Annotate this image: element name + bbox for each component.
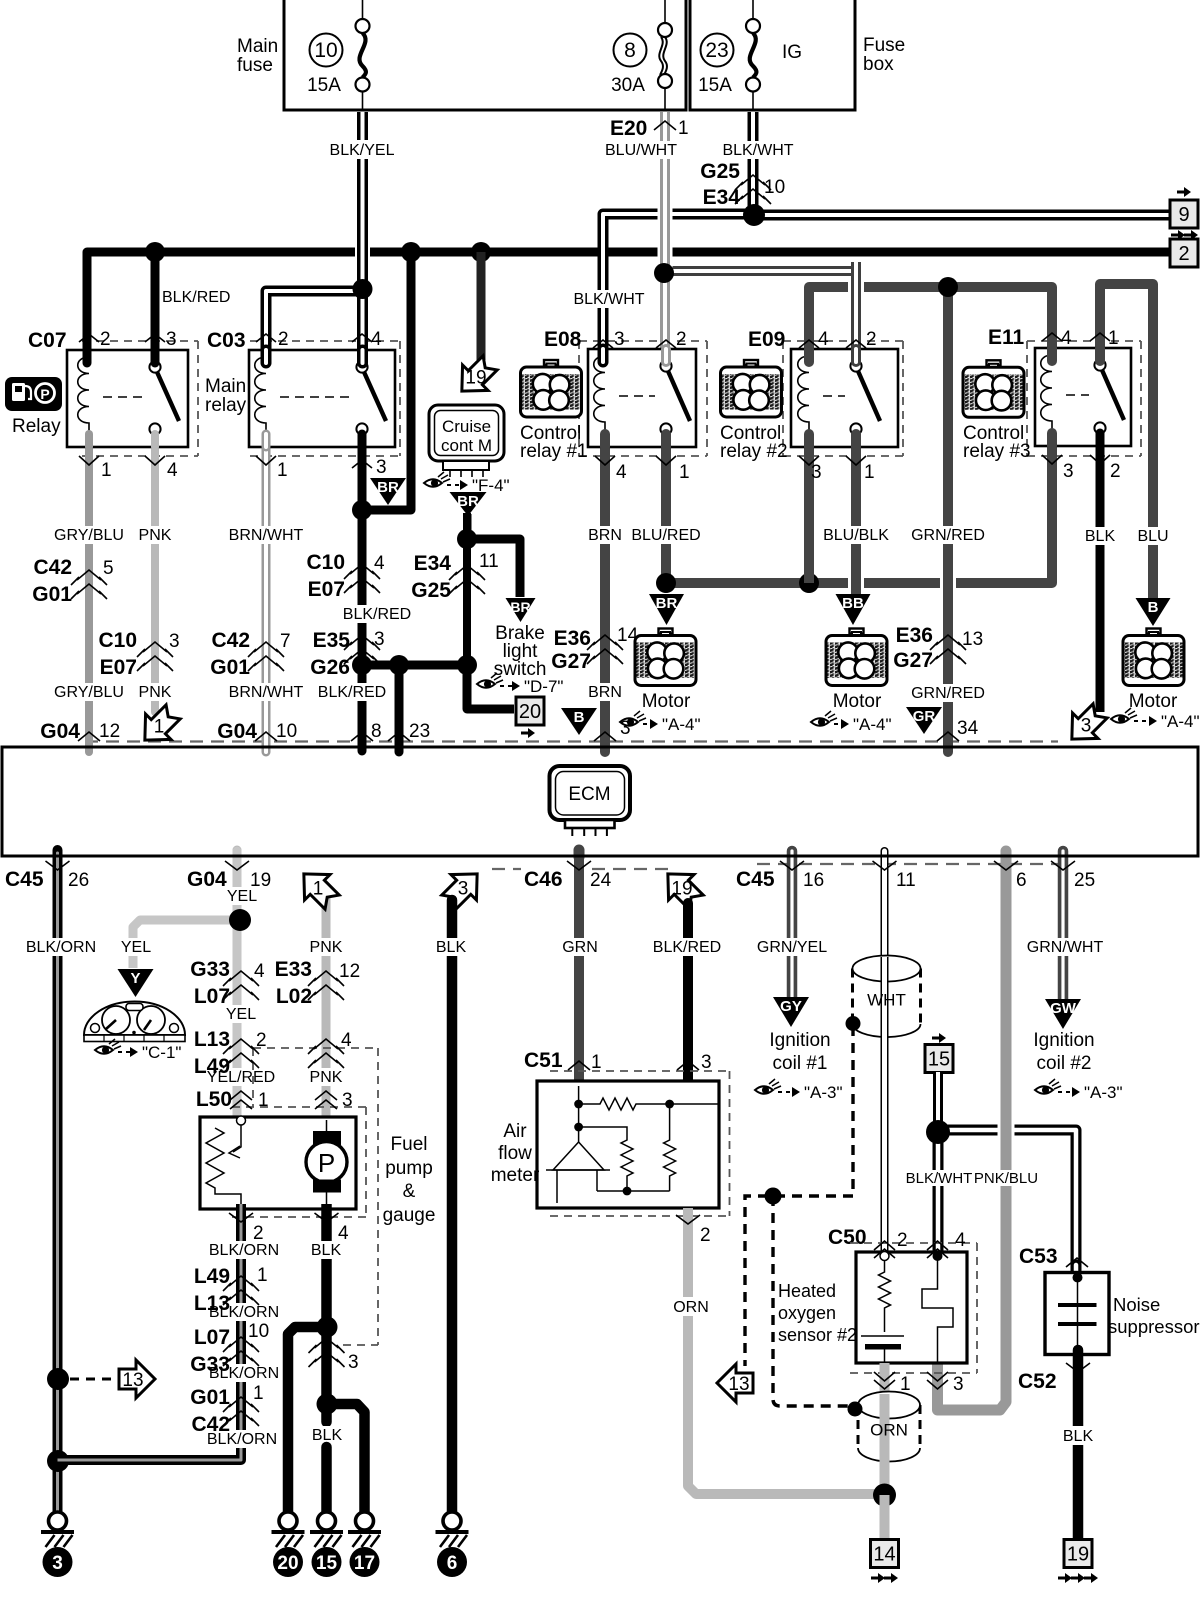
svg-text:G01: G01 — [210, 656, 250, 679]
wire BLK/RED page arrow19 to C51 pin 3 — [683, 903, 693, 1086]
inline connector mark L07/G33 pin 10 — [223, 1337, 259, 1366]
ground point 20 — [272, 1512, 305, 1577]
shield tap dot WHT cylinder — [846, 1016, 861, 1031]
ground point 15 — [310, 1512, 343, 1577]
terminal box 15 — [925, 1045, 953, 1073]
dashed link to page arrow 13 — [70, 1378, 114, 1381]
wire cruise BR arrow to junction — [463, 513, 471, 665]
ground point 17 — [348, 1512, 381, 1577]
connector dashed box C03 — [250, 341, 400, 456]
wire BLU/WHT fuse F8 down to E08 pin 2 — [660, 112, 670, 362]
pin mark E08-3 — [593, 340, 613, 348]
shield dashed WHT cylinder to junction — [851, 1026, 854, 1196]
svg-text:1: 1 — [277, 460, 288, 481]
svg-text:3: 3 — [701, 1052, 712, 1073]
page arrow 13 left — [717, 1364, 753, 1402]
pin mark C45-6 — [994, 861, 1018, 870]
inline connector mark G33/L07 pin 4 — [223, 971, 259, 1000]
wire BLK/RED down to ECM pin 23 — [395, 665, 404, 752]
arrow BR near C03 junction — [370, 478, 406, 505]
svg-text:10: 10 — [314, 39, 337, 62]
svg-text:Ignition: Ignition — [1033, 1030, 1094, 1051]
label BLK/ORN pump — [208, 1241, 280, 1259]
fuel pump relay icon — [5, 377, 62, 411]
svg-text:suppressor: suppressor — [1108, 1316, 1200, 1337]
svg-text:BLU/WHT: BLU/WHT — [605, 142, 677, 159]
svg-text:BLK/ORN: BLK/ORN — [209, 1365, 279, 1382]
svg-text:3: 3 — [169, 631, 180, 652]
junction BLK to ground 17 — [317, 1394, 338, 1415]
pin mark C53 — [1066, 1258, 1088, 1267]
wire branch junction to brake light switch arrow — [467, 539, 520, 597]
arrow BR to motor 1 — [649, 594, 684, 625]
svg-text:Y: Y — [130, 970, 140, 987]
eye reference A-3 coil 2 — [1035, 1079, 1123, 1102]
svg-text:relay #2: relay #2 — [720, 441, 788, 462]
pin mark ECM pin 23 — [388, 732, 410, 741]
svg-text:Air: Air — [503, 1121, 527, 1142]
stub C03 pin4 — [357, 350, 368, 363]
air flow meter internals — [546, 1086, 719, 1203]
stub E08 pin3 — [598, 349, 609, 362]
eye reference A-4 motor 2 — [811, 711, 892, 734]
pin mark E08-4 — [595, 456, 615, 465]
label BRN/WHT lower — [229, 683, 304, 701]
svg-text:gauge: gauge — [383, 1205, 436, 1226]
terminal box 19 — [1064, 1540, 1092, 1568]
svg-text:ECM: ECM — [568, 784, 610, 805]
inline connector mark E36/G27 pin 14 — [587, 635, 623, 664]
svg-text:E07: E07 — [100, 656, 137, 679]
svg-text:3: 3 — [458, 879, 469, 900]
radiator fan icon control relay #2 — [721, 360, 782, 417]
svg-text:relay #1: relay #1 — [520, 441, 588, 462]
stub below cruise BR arrow — [465, 514, 472, 540]
svg-text:L02: L02 — [276, 985, 312, 1008]
svg-text:23: 23 — [705, 39, 728, 62]
label GRN/WHT — [1025, 938, 1105, 956]
ECM connector dashed boundary bottom middle — [492, 868, 676, 870]
svg-text:PNK: PNK — [310, 1069, 343, 1086]
stub E09 pin3 — [804, 434, 814, 447]
arrow BR from cruise module — [450, 492, 487, 516]
ECM connector dashed boundary top — [85, 740, 1058, 742]
svg-text:C42: C42 — [33, 556, 72, 579]
svg-text:17: 17 — [354, 1553, 375, 1574]
terminal box 14 — [871, 1540, 899, 1568]
label GRN — [560, 938, 600, 956]
svg-text:Motor: Motor — [1129, 691, 1178, 712]
wire BLK/RED bus to C07 pin 3 — [151, 252, 160, 362]
svg-text:4: 4 — [371, 329, 382, 350]
wire BLK/WHT junction down to C50 pin 4 — [933, 1130, 944, 1256]
svg-text:BLK: BLK — [1063, 1428, 1094, 1445]
svg-text:3: 3 — [52, 1553, 63, 1574]
shield cylinder WHT — [853, 956, 921, 1038]
svg-text:4: 4 — [955, 1230, 966, 1251]
inline connector mark L13/L49 pin 2 — [223, 1039, 259, 1068]
label BLK/ORN c45 — [25, 938, 97, 956]
svg-text:26: 26 — [68, 870, 89, 891]
label GRY/BLU upper — [54, 526, 124, 544]
dashed boundary fuel pump outer left — [252, 1048, 254, 1107]
svg-text:C51: C51 — [524, 1049, 563, 1072]
svg-text:15: 15 — [928, 1049, 950, 1071]
svg-text:3: 3 — [811, 462, 822, 483]
svg-text:3: 3 — [953, 1374, 964, 1395]
pin mark E09-2 — [846, 340, 866, 348]
svg-text:L07: L07 — [194, 985, 230, 1008]
wire bus branch to page arrow 19 — [477, 252, 486, 360]
svg-text:E08: E08 — [544, 328, 582, 351]
pin mark C03-1 — [256, 456, 276, 465]
wire BLK branch to ground 17 — [327, 1404, 365, 1512]
pin mark C50-2 — [874, 1241, 895, 1258]
svg-text:1: 1 — [101, 460, 112, 481]
svg-text:3: 3 — [342, 1090, 353, 1111]
connector dashed box C51 — [550, 1071, 730, 1216]
label YEL/RED — [207, 1068, 275, 1086]
svg-text:2: 2 — [897, 1230, 908, 1251]
svg-text:GRN/RED: GRN/RED — [911, 685, 985, 702]
label PNK upper — [136, 526, 174, 544]
terminal box 20 — [516, 697, 544, 725]
wire ORN C50 pin 1 down through shield to junction — [880, 1363, 890, 1495]
svg-text:13: 13 — [122, 1370, 143, 1391]
svg-text:BLK/RED: BLK/RED — [653, 939, 721, 956]
svg-text:GY: GY — [780, 998, 802, 1015]
svg-text:P: P — [318, 1148, 335, 1178]
svg-text:L07: L07 — [194, 1326, 230, 1349]
wire BLK E11 pin 2 down to page arrow 3 — [1096, 435, 1105, 712]
wire PNK/BLU ECM pin 6 to C50 pin 3 — [938, 851, 1007, 1410]
fuse F10 symbol — [356, 0, 370, 110]
pin mark G04-10 — [255, 732, 277, 741]
svg-text:2: 2 — [256, 1030, 267, 1051]
stub C07 pin2 — [83, 350, 92, 363]
svg-text:BLK/WHT: BLK/WHT — [573, 291, 644, 308]
inline connector mark E33/L02 pin 12 — [308, 971, 344, 1000]
svg-text:BR: BR — [656, 595, 678, 612]
arrow Y to combination meter — [118, 969, 154, 997]
svg-text:E36: E36 — [554, 627, 591, 650]
shield dashed junction down to ORN cylinder — [773, 1196, 848, 1406]
module cruise cont M — [429, 405, 504, 477]
radiator fan icon control relay #3 — [963, 360, 1024, 417]
svg-text:10: 10 — [276, 721, 297, 742]
svg-text:3: 3 — [1081, 716, 1092, 737]
svg-text:25: 25 — [1074, 870, 1095, 891]
svg-text:15A: 15A — [698, 75, 732, 96]
connector dashed box E09 — [783, 341, 903, 456]
svg-text:Fuel: Fuel — [391, 1134, 428, 1155]
radiator fan motor 1 — [635, 629, 696, 686]
pin mark E09-1 — [846, 456, 866, 465]
svg-text:2: 2 — [1110, 461, 1121, 482]
svg-text:BB: BB — [842, 595, 864, 612]
svg-text:Noise: Noise — [1113, 1294, 1160, 1315]
svg-text:PNK/BLU: PNK/BLU — [974, 1170, 1038, 1187]
label BRN/WHT upper — [229, 526, 304, 544]
svg-text:Main: Main — [205, 376, 246, 397]
label BLK/RED c51 — [651, 938, 723, 956]
wire GRN/RED crossing segment — [943, 555, 953, 610]
ground point 3 — [41, 1512, 74, 1577]
fuse F10 number circle — [310, 34, 343, 67]
svg-text:B: B — [574, 709, 585, 726]
pin mark C51-3 — [677, 1061, 699, 1070]
svg-text:BLK/ORN: BLK/ORN — [209, 1242, 279, 1259]
inline connector mark E36/G27 pin 13 — [930, 635, 966, 664]
connector dashed box fuel pump inner — [232, 1107, 366, 1217]
stub E11 pin1 — [1095, 348, 1105, 361]
wire BLK/WHT terminal 15 to junction — [933, 1072, 943, 1135]
label BLK/YEL — [325, 140, 400, 159]
svg-text:GR: GR — [913, 708, 936, 725]
fuse box right section — [690, 0, 855, 110]
stub C07 pin4 — [151, 434, 159, 447]
dashed jog fuel pump bottom — [343, 1344, 378, 1346]
svg-text:9: 9 — [1178, 204, 1189, 226]
wire PNK C07 pin 4 down to page arrow 1 — [151, 435, 159, 712]
label GRN/RED lower — [910, 684, 986, 702]
pin mark C03-3 lower — [352, 460, 372, 468]
svg-text:1: 1 — [258, 1090, 269, 1111]
ECM connector dashed boundary bottom right — [757, 863, 1058, 865]
svg-text:flow: flow — [498, 1143, 532, 1164]
stub C03 pin1 — [262, 434, 271, 447]
pin mark ECM pin 34 — [937, 732, 959, 741]
page arrow 13 right — [119, 1360, 155, 1398]
inline connector mark E35/G26 pin 3 — [344, 635, 380, 664]
svg-text:"A-4": "A-4" — [662, 715, 701, 734]
label PNK/BLU — [974, 1170, 1038, 1187]
arrow GY to ignition coil 1 — [773, 997, 809, 1027]
fuel gauge rheostat internals — [206, 1116, 246, 1209]
svg-text:BRN/WHT: BRN/WHT — [229, 684, 304, 701]
wire ORN C51 pin 2 down to junction — [688, 1208, 885, 1494]
svg-text:BLU/BLK: BLU/BLK — [823, 527, 889, 544]
pin mark E08-2 — [656, 340, 676, 348]
svg-text:G01: G01 — [32, 583, 72, 606]
svg-text:1: 1 — [313, 879, 324, 900]
svg-text:YEL: YEL — [121, 939, 151, 956]
svg-text:coil #1: coil #1 — [773, 1053, 828, 1074]
pin mark C07-3 — [145, 334, 165, 342]
svg-text:C52: C52 — [1018, 1370, 1057, 1393]
stub C07 pin3 — [151, 350, 160, 363]
wire main supply bus BLK from C07 to terminal 2 — [87, 252, 1171, 350]
wire BLK/WHT junction to terminal 9 — [753, 210, 1171, 221]
arrow B to motor 3 — [1136, 598, 1171, 626]
pin mark E11-4 — [1042, 333, 1062, 341]
junction BLK/RED to brake light node — [457, 655, 477, 675]
wire BLK page arrow3 to ground 6 — [447, 900, 458, 1512]
svg-text:GRY/BLU: GRY/BLU — [54, 527, 124, 544]
svg-text:relay: relay — [205, 395, 247, 416]
svg-text:BR: BR — [377, 479, 399, 496]
stub E08 pin4 — [600, 434, 610, 447]
junction BLK/ORN to page 13 — [47, 1368, 69, 1390]
label GRY/BLU lower — [54, 683, 124, 701]
svg-text:WHT: WHT — [867, 990, 906, 1009]
svg-text:1: 1 — [679, 462, 690, 483]
wire BLK/ORN pump pin 2 to ground link — [58, 1204, 242, 1460]
relay E11 — [1035, 348, 1131, 446]
pin mark C52 — [1066, 1363, 1090, 1372]
radiator fan motor 3 — [1123, 629, 1184, 686]
svg-text:4: 4 — [374, 553, 385, 574]
svg-text:8: 8 — [624, 39, 636, 62]
svg-text:2: 2 — [866, 329, 877, 350]
pin mark ECM pin 3 — [594, 732, 616, 741]
wire BLK branch to ground 20 — [288, 1327, 327, 1512]
svg-text:GRN/RED: GRN/RED — [911, 527, 985, 544]
svg-text:4: 4 — [254, 961, 265, 982]
svg-text:GRN: GRN — [562, 939, 598, 956]
svg-text:relay #3: relay #3 — [963, 441, 1031, 462]
wire BLK C52 suppressor to terminal 19 — [1073, 1350, 1084, 1540]
arrow below terminal 20 — [521, 728, 535, 738]
svg-text:oxygen: oxygen — [778, 1303, 836, 1323]
svg-text:G25: G25 — [411, 579, 451, 602]
eye reference F-4 cruise — [424, 472, 510, 495]
wire fan feed E09 pin 4 to E11 pin 4 — [809, 287, 1052, 362]
svg-text:15: 15 — [316, 1553, 338, 1574]
svg-text:G33: G33 — [190, 958, 230, 981]
arrow BR to brake light switch — [506, 598, 536, 622]
svg-text:E11: E11 — [988, 326, 1025, 349]
svg-text:3: 3 — [376, 457, 387, 478]
wire GRN/RED junction down to ECM pin 34 — [943, 287, 953, 752]
fuse F23 symbol — [746, 0, 760, 110]
inline connector mark fuel pump pin 4 entry — [308, 1039, 344, 1068]
wire BLU/RED E08 pin 1 down to fan motor bus — [661, 435, 671, 583]
svg-text:BLK/RED: BLK/RED — [343, 606, 411, 623]
stub C03 pin3 — [358, 434, 367, 447]
svg-text:PNK: PNK — [139, 684, 172, 701]
svg-text:4: 4 — [818, 329, 829, 350]
svg-text:34: 34 — [957, 718, 979, 739]
label PNK mid — [307, 1068, 345, 1086]
svg-text:E33: E33 — [275, 958, 312, 981]
pin mark C51-2 — [676, 1215, 700, 1224]
label PNK ecm — [307, 938, 345, 956]
svg-text:ORN: ORN — [673, 1299, 709, 1316]
pin mark L50-1 — [230, 1091, 252, 1109]
stub E09 pin1 — [851, 434, 861, 447]
wire YEL G04 pin 19 down to fuel gauge — [233, 851, 242, 1116]
junction cruise node — [457, 529, 477, 549]
page arrow 3 below ECM — [436, 861, 490, 915]
svg-text:2: 2 — [253, 1223, 264, 1244]
svg-text:C07: C07 — [28, 329, 67, 352]
relay C03 main relay — [249, 350, 395, 447]
label PNK lower — [136, 683, 174, 701]
svg-text:23: 23 — [409, 721, 430, 742]
svg-text:14: 14 — [873, 1544, 895, 1566]
svg-text:BLK: BLK — [312, 1427, 343, 1444]
pin mark C07-4 — [145, 456, 165, 465]
eye reference A-3 coil 1 — [755, 1079, 843, 1102]
svg-text:BR: BR — [510, 599, 530, 615]
wire E09 pin 3 to fan bus — [804, 435, 814, 583]
pin mark pump-3 — [315, 1091, 337, 1109]
wire BLK/WHT fuse F23 down to junction E34/G25 — [748, 112, 759, 215]
air flow meter box C51 — [537, 1081, 719, 1208]
stub C07 pin1 — [85, 434, 93, 447]
svg-text:E34: E34 — [414, 552, 452, 575]
label BLU/WHT — [600, 141, 684, 159]
svg-text:Cruise: Cruise — [442, 417, 491, 436]
stub E11 pin2 — [1096, 433, 1105, 446]
wire BLK/YEL branch to C03 pin 2 — [266, 291, 363, 362]
svg-text:BLK/ORN: BLK/ORN — [26, 939, 96, 956]
svg-text:BLK: BLK — [311, 1242, 342, 1259]
svg-text:1: 1 — [1108, 328, 1119, 349]
label BRN upper — [585, 526, 625, 544]
wire BLK/ORN C45 pin 26 to ground 3 — [53, 853, 63, 1512]
svg-text:Motor: Motor — [833, 691, 882, 712]
svg-text:19: 19 — [465, 368, 486, 389]
wire WHT below cylinder label — [881, 1020, 889, 1256]
svg-text:meter: meter — [491, 1165, 540, 1186]
label BLK/ORN low1 — [209, 1303, 279, 1321]
svg-text:"A-4": "A-4" — [1161, 712, 1200, 731]
pin mark C50-4 — [927, 1241, 948, 1258]
stub E09 pin2 — [851, 349, 861, 362]
svg-text:C53: C53 — [1019, 1245, 1058, 1268]
connector dashed box C07 — [82, 341, 198, 456]
stub E08 pin2 — [661, 349, 671, 362]
inline connector mark pump BLK pin 3 — [309, 1338, 345, 1367]
label ORN C51 — [671, 1297, 711, 1316]
svg-text:E09: E09 — [748, 328, 785, 351]
pin mark ECM pin 8 — [351, 732, 373, 741]
inline connector mark G01/C42 pin 1 — [223, 1397, 259, 1426]
label BRN lower — [585, 683, 625, 701]
pin mark E08-1 — [656, 456, 676, 465]
pin mark C50-3 — [927, 1372, 948, 1389]
svg-text:BR: BR — [457, 493, 479, 510]
svg-text:L49: L49 — [194, 1265, 230, 1288]
svg-text:20: 20 — [519, 701, 541, 723]
arrow GR near pin 34 — [906, 707, 942, 734]
label BLK/WHT fuse 23 — [716, 141, 800, 159]
svg-text:4: 4 — [338, 1223, 349, 1244]
arrows above terminal 2 — [1171, 230, 1198, 240]
radiator fan motor 2 — [826, 629, 887, 686]
pin mark C51-1 — [568, 1061, 590, 1070]
svg-text:G04: G04 — [40, 720, 80, 743]
label BLK C52 — [1058, 1426, 1098, 1445]
label BLK below arrow3 — [432, 938, 470, 956]
svg-text:E36: E36 — [896, 624, 933, 647]
label BLK ground15 — [308, 1426, 346, 1444]
pin mark pump-2 — [229, 1213, 253, 1222]
wire BLK/WHT junction to noise suppressor C53 — [938, 1130, 1076, 1276]
shield dashed junction to left — [745, 1196, 853, 1366]
wire BLK/ORN cap above ECM line — [53, 850, 63, 857]
svg-text:2: 2 — [278, 329, 289, 350]
svg-text:1: 1 — [864, 462, 875, 483]
svg-text:Heated: Heated — [778, 1281, 836, 1301]
svg-text:GRY/BLU: GRY/BLU — [54, 684, 124, 701]
svg-text:"D-7": "D-7" — [524, 677, 563, 696]
svg-text:2: 2 — [676, 329, 687, 350]
wire bus branch down to cruise feed — [365, 252, 411, 510]
svg-text:C45: C45 — [736, 868, 775, 891]
